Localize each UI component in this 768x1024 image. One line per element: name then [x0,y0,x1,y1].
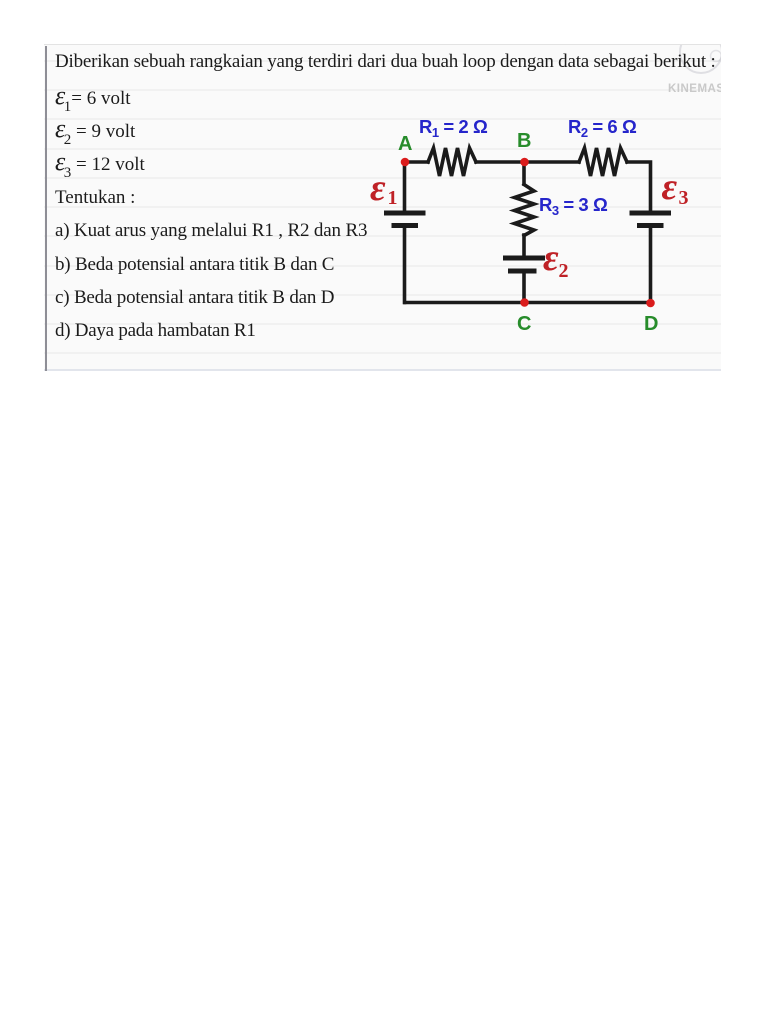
frame left border [45,46,47,371]
svg-text:1: 1 [388,187,398,209]
node A [401,158,410,167]
svg-text:ε: ε [543,237,559,279]
watermark KINEMASTER [668,83,749,95]
svg-text:2: 2 [559,260,569,282]
node C [520,298,529,307]
frame top edge [44,44,721,46]
node B [520,158,529,167]
wire R2 to top-right corner [627,162,651,211]
frame bottom edge [44,369,721,371]
resistor R1 [428,148,476,176]
watermark stamp circle [44,45,721,371]
svg-text:C: C [517,313,531,335]
ruled lines [44,60,721,62]
svg-text:R3 = 3 Ω: R3 = 3 Ω [539,194,608,218]
battery E3 long plate [632,211,669,216]
svg-text:R2 = 6 Ω: R2 = 6 Ω [568,116,637,140]
resistor R2 [579,148,627,176]
battery E2 long plate [506,256,543,261]
circuit schematic [0,0,768,380]
wire left: node A down to battery E1 [403,162,407,211]
battery E3 short plate [640,223,662,228]
wire E2 down to node C [522,273,526,303]
video frame background [44,45,721,371]
svg-text:ε: ε [662,166,678,208]
node D [646,299,655,308]
svg-text:3: 3 [679,187,689,209]
battery E1 short plate [394,223,416,228]
wire R3 to battery E2 [522,235,526,256]
battery E1 long plate [387,211,424,216]
svg-text:A: A [398,133,412,155]
wire E3 to node D [649,228,653,303]
wire node B down to R3 [522,162,526,184]
battery E2 short plate [511,269,535,274]
svg-text:B: B [517,130,531,152]
wire E1 down to bottom-left corner [403,228,407,303]
svg-text:ε: ε [370,167,386,209]
wire R1 to R2 through node B [476,160,579,164]
svg-text:R1 = 2 Ω: R1 = 2 Ω [419,116,488,140]
wire bottom from node D to bottom-left corner [405,301,651,305]
wire A to R1 [405,160,428,164]
resistor R3 [515,185,535,236]
problem text [55,51,716,73]
svg-text:D: D [644,313,658,335]
